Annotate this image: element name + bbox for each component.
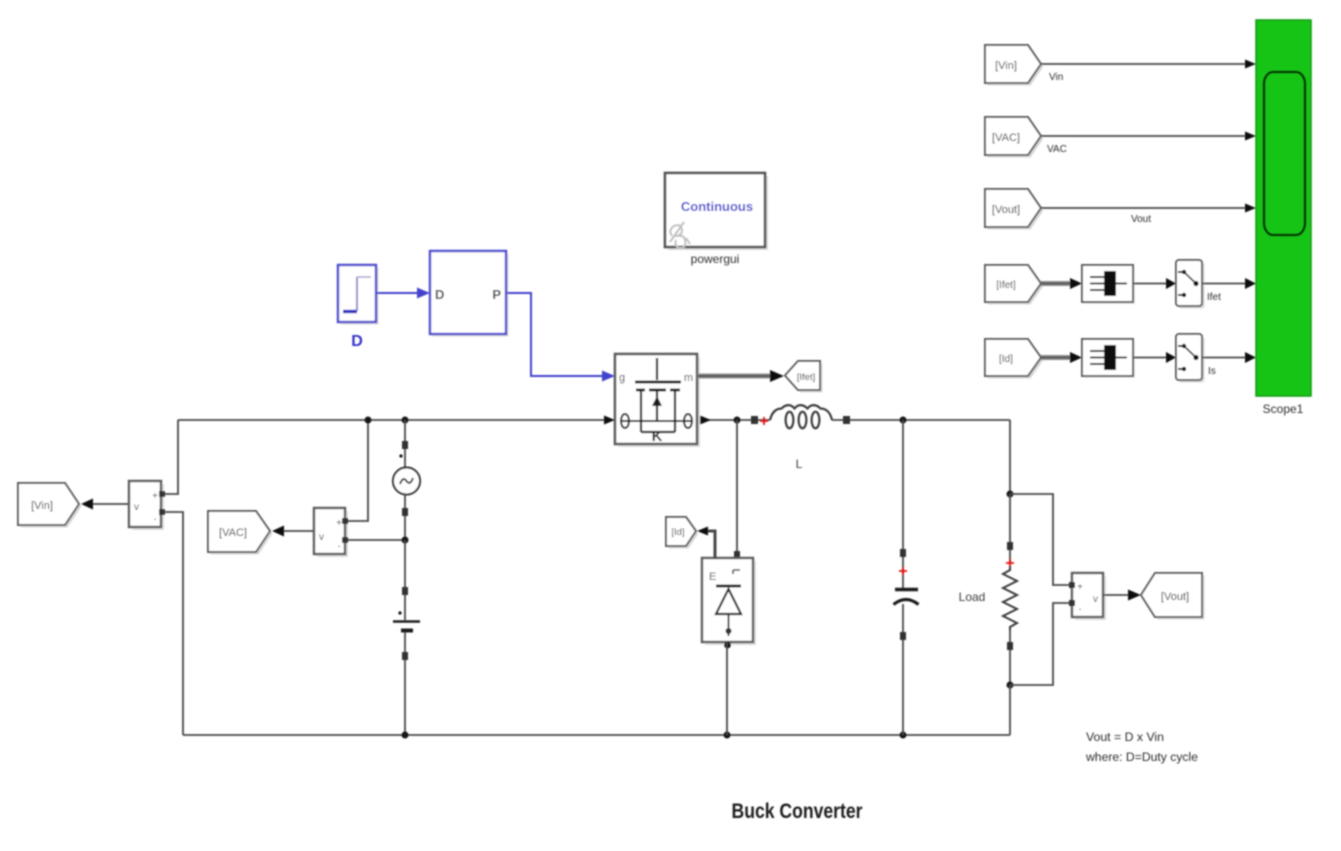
svg-text:Is: Is: [1208, 366, 1216, 377]
svg-text:D: D: [435, 287, 444, 302]
svg-text:[Ifet]: [Ifet]: [797, 372, 815, 383]
top rail wire: [178, 419, 612, 421]
load bottom port mark: [1007, 642, 1013, 650]
svg-text:m: m: [684, 372, 693, 384]
svg-text:v: v: [134, 502, 139, 513]
From tag [VAC] (to scope): [985, 117, 1044, 158]
battery top port mark: [402, 587, 408, 595]
svg-text:[VAC]: [VAC]: [219, 527, 247, 539]
svg-text:.: .: [153, 509, 156, 523]
node load top: [1007, 491, 1014, 498]
manual switch (Is): [1176, 334, 1216, 383]
capacitor bottom port mark: [900, 632, 906, 640]
voltage measurement V (VAC): [314, 508, 348, 557]
load plus mark: [1006, 559, 1014, 567]
diode anode port mark: [734, 551, 740, 559]
wire switch to scope (Ifet): [1202, 278, 1256, 289]
wire V3 to [Vout]: [1103, 590, 1141, 601]
step source D: [338, 265, 379, 350]
manual switch (Ifet): [1176, 260, 1221, 309]
Goto tag [Vin]: [18, 483, 82, 528]
svg-text:Load: Load: [959, 590, 986, 604]
From tag [Ifet] (to selector): [985, 265, 1044, 305]
AC source port mark: [402, 441, 408, 449]
svg-text:Buck Converter: Buck Converter: [732, 800, 863, 823]
svg-text:Vin: Vin: [1049, 72, 1063, 83]
node AC / VAC-: [402, 537, 409, 544]
wire load bottom to rail corner: [1009, 685, 1011, 735]
node rail / capacitor: [900, 417, 907, 424]
svg-text:v: v: [1093, 594, 1098, 605]
wire Vout to scope: [1041, 204, 1256, 226]
svg-text:v: v: [319, 532, 324, 543]
wire diode to bottom rail: [726, 642, 728, 735]
svg-text:Scope1: Scope1: [1263, 402, 1304, 416]
load top port mark: [1007, 542, 1013, 550]
AC source plus dot: [399, 454, 402, 457]
load branch: [1009, 494, 1011, 563]
wire V2 to [VAC]: [272, 526, 314, 537]
powergui block: [665, 173, 768, 266]
wire selector to switch (Ifet): [1133, 278, 1176, 289]
svg-text:[Vout]: [Vout]: [1161, 591, 1189, 603]
svg-text:E: E: [709, 571, 716, 583]
node load bottom: [1007, 682, 1014, 689]
wire VAC+ up to top rail: [348, 420, 368, 521]
node bottom rail / capacitor: [900, 732, 907, 739]
From tag [Vout] (to scope): [985, 189, 1044, 230]
port arrow into mosfet left: [604, 416, 615, 425]
svg-text:[Vin]: [Vin]: [31, 500, 53, 512]
wire mosfet right to load corner: [700, 419, 770, 421]
wire V1 to [Vin]: [81, 499, 129, 510]
svg-text:powergui: powergui: [691, 252, 740, 266]
From tag [Vin] (to scope): [985, 45, 1044, 86]
capacitor plus mark: [899, 567, 907, 575]
wire Vin+ up to top rail: [164, 420, 178, 494]
capacitor C plates: [894, 590, 919, 605]
Goto tag [VAC]: [208, 511, 273, 555]
capacitor branch wire top: [902, 420, 904, 588]
wire Vin- down to bottom rail: [164, 512, 183, 735]
node bottom rail / battery: [402, 732, 409, 739]
svg-text:Ifet: Ifet: [1207, 292, 1221, 303]
DC voltage source battery: [393, 622, 420, 631]
svg-text:.: .: [1078, 599, 1081, 613]
wire step to subsystem: [376, 288, 430, 299]
annotation Vout formula: [1085, 732, 1198, 764]
svg-text:.: .: [337, 536, 340, 550]
svg-text:Vout: Vout: [1131, 214, 1151, 225]
Goto tag [Vout]: [1141, 573, 1205, 620]
node top rail / VAC+: [365, 417, 372, 424]
Goto tag [Id]: [666, 517, 699, 549]
inductor right port mark: [843, 416, 850, 424]
diode block: [702, 558, 756, 645]
wire VAC to scope: [1041, 132, 1256, 156]
svg-text:[Id]: [Id]: [999, 354, 1013, 365]
wire Vin to scope: [1041, 60, 1256, 84]
AC voltage source: [393, 468, 420, 495]
inductor L coils: [770, 405, 832, 428]
selector block (Ifet): [1082, 265, 1135, 304]
svg-text:[Vin]: [Vin]: [995, 60, 1017, 72]
capacitor port mark: [900, 549, 906, 557]
wire node to battery: [404, 540, 406, 620]
diode m output wire to [Id]: [697, 527, 715, 560]
svg-text:+: +: [1077, 582, 1083, 593]
subsystem D/P: [430, 251, 509, 337]
svg-text:K: K: [652, 428, 663, 445]
mosfet block: [615, 354, 700, 447]
wire VAC- to AC branch: [348, 539, 405, 541]
battery plus dot: [398, 611, 401, 614]
thick vector wire Id: [1041, 352, 1082, 363]
inductor plus mark: [760, 417, 768, 425]
svg-text:where: D=Duty cycle: where: D=Duty cycle: [1085, 752, 1198, 764]
svg-text:[Ifet]: [Ifet]: [996, 280, 1016, 291]
AC bottom port mark: [402, 508, 408, 516]
AC source branch wire: [404, 420, 406, 468]
svg-text:+: +: [152, 491, 158, 502]
From tag [Id] (to selector): [985, 339, 1044, 379]
bottom rail wire: [183, 734, 1010, 736]
battery bottom port mark: [402, 652, 408, 660]
svg-text:Vout = D x Vin: Vout = D x Vin: [1086, 732, 1164, 744]
wire subsystem P to mosfet g: [506, 293, 615, 382]
svg-text:Continuous: Continuous: [681, 199, 753, 214]
wire node to V3 plus: [1010, 494, 1072, 585]
wire AC to node: [404, 494, 406, 540]
port arrow out of mosfet right: [700, 416, 711, 425]
voltage measurement V (Vin): [129, 481, 165, 530]
thick vector wire Ifet: [1041, 278, 1082, 289]
wire load corner down: [1009, 420, 1011, 494]
svg-text:+: +: [336, 518, 342, 529]
thick vector wire mosfet m to [Ifet]: [697, 370, 784, 382]
svg-text:L: L: [796, 457, 803, 471]
svg-text:[Id]: [Id]: [671, 527, 684, 538]
selector block (Id): [1082, 339, 1135, 378]
wire battery to bottom rail: [404, 632, 406, 735]
load resistor zigzag: [1003, 566, 1017, 630]
svg-text:[Vout]: [Vout]: [992, 204, 1020, 216]
load bottom wire: [1009, 630, 1011, 685]
node diode bottom: [724, 642, 731, 649]
Goto tag [Ifet]: [785, 361, 823, 393]
diode branch wire from node: [736, 420, 738, 558]
wire node to V3 minus: [1010, 603, 1072, 685]
scope Scope1: [1256, 20, 1311, 416]
wire switch to scope (Is): [1202, 352, 1256, 363]
svg-text:g: g: [619, 372, 625, 384]
node mosfet out / diode: [734, 417, 741, 424]
svg-text:P: P: [492, 287, 501, 302]
wire selector to switch (Id): [1133, 352, 1176, 363]
voltage measurement V (Vout): [1069, 573, 1106, 620]
inductor left port mark: [751, 416, 758, 424]
node bottom rail / diode: [724, 732, 731, 739]
svg-text:D: D: [351, 333, 363, 350]
svg-text:VAC: VAC: [1047, 144, 1067, 155]
node top rail / AC source: [402, 417, 409, 424]
capacitor branch wire bottom: [902, 604, 904, 735]
svg-text:[VAC]: [VAC]: [992, 132, 1020, 144]
